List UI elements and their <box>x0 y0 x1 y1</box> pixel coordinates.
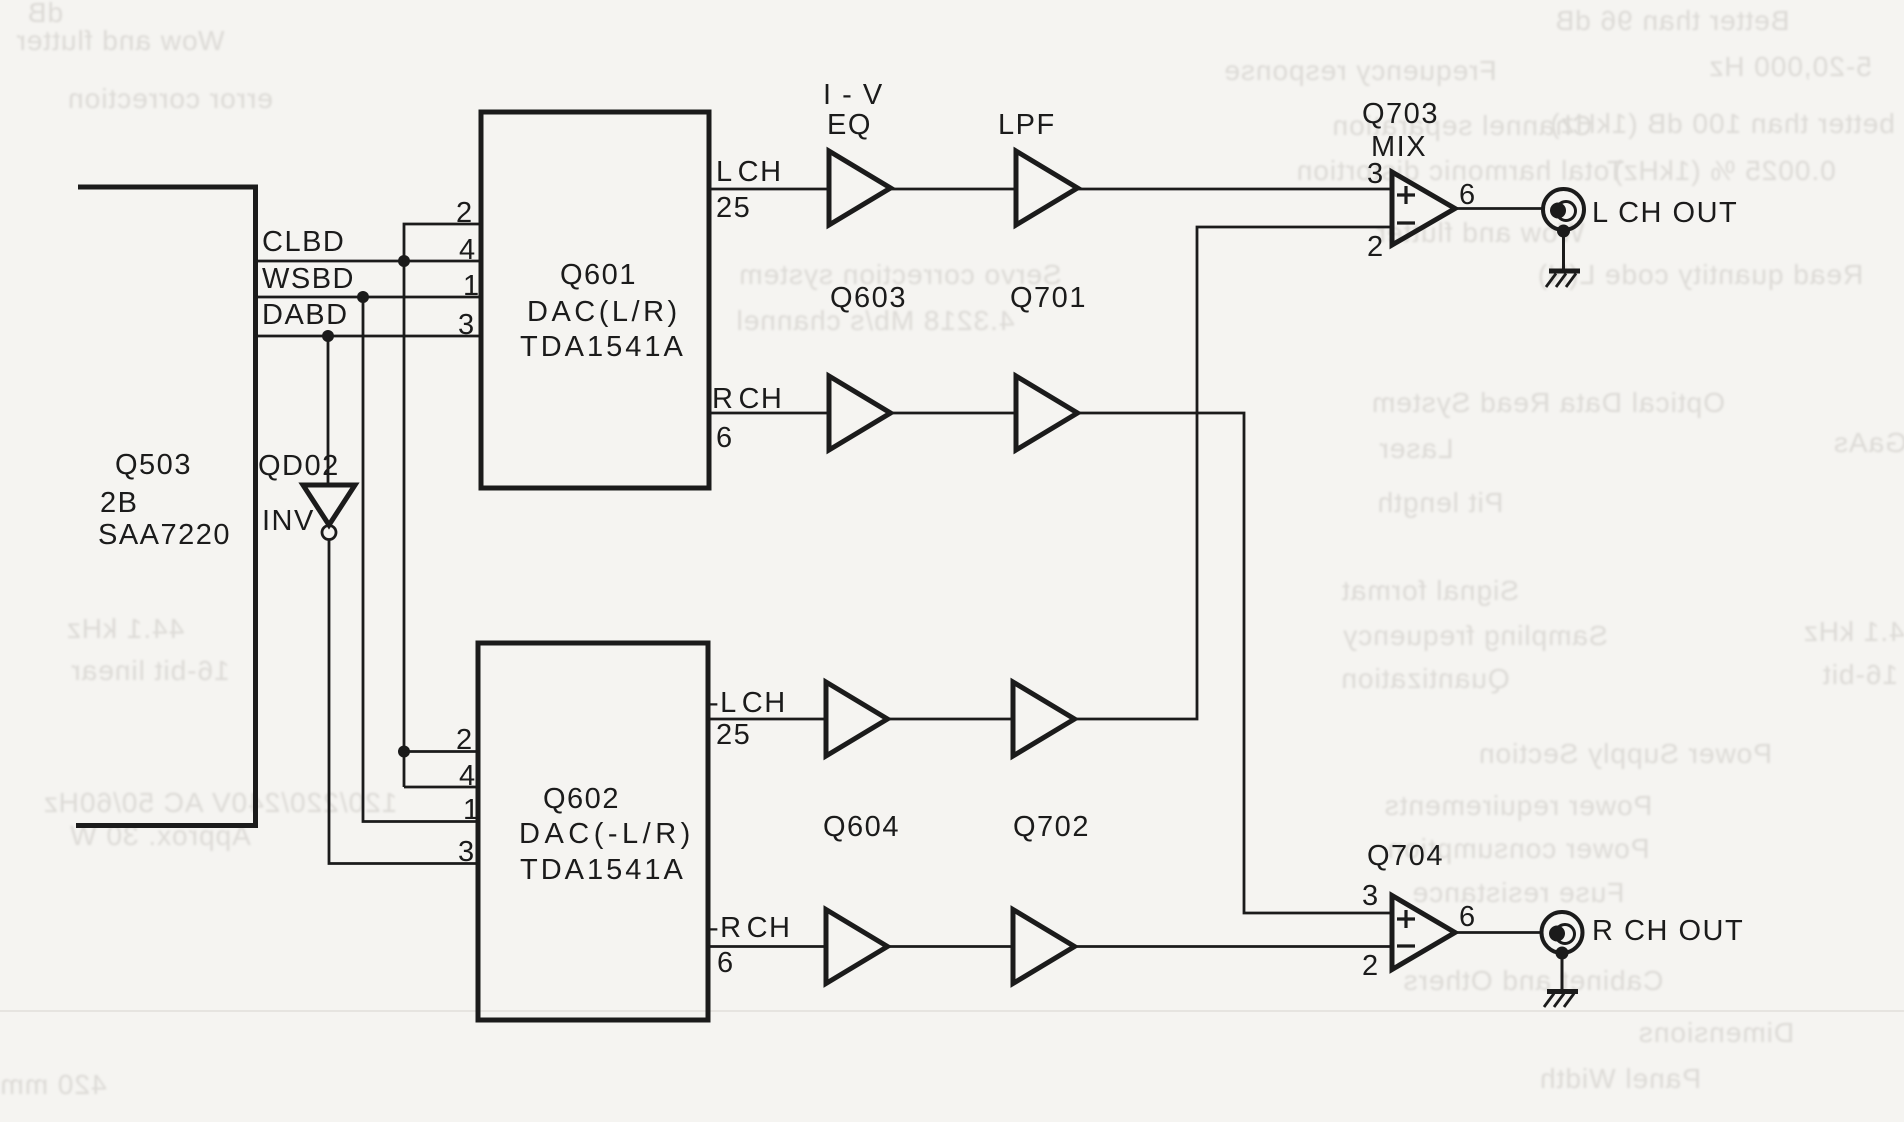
junction CLBD branch <box>398 255 410 267</box>
svg-text:4: 4 <box>459 234 477 266</box>
svg-text:25: 25 <box>716 719 751 751</box>
svg-text:DAC(L/R): DAC(L/R) <box>527 296 681 328</box>
svg-text:CLBD: CLBD <box>262 226 345 258</box>
svg-text:2B: 2B <box>100 487 138 519</box>
svg-text:Wow and flutter: Wow and flutter <box>15 25 224 56</box>
svg-text:Panel Width: Panel Width <box>1539 1063 1701 1094</box>
svg-text:3: 3 <box>1362 880 1380 912</box>
svg-text:120/220/240V AC 50/60Hz: 120/220/240V AC 50/60Hz <box>43 787 398 818</box>
svg-text:Q701: Q701 <box>1010 282 1087 314</box>
svg-text:Pit length: Pit length <box>1377 487 1504 518</box>
svg-text:6: 6 <box>717 947 735 979</box>
svg-text:Quantization: Quantization <box>1340 663 1509 694</box>
buffer amp Q702 <box>1013 682 1075 756</box>
svg-text:2: 2 <box>456 724 474 756</box>
svg-text:2: 2 <box>456 197 474 229</box>
svg-text:DAC(-L/R): DAC(-L/R) <box>519 818 695 850</box>
svg-text:Q503: Q503 <box>115 449 192 481</box>
svg-text:2: 2 <box>1367 231 1385 263</box>
junction WSBD branch <box>357 291 369 303</box>
DAC Q602 TDA1541A block <box>478 643 708 1020</box>
wire LCH from Q601 pin 25 to buffer Q603 <box>709 188 829 191</box>
svg-text:Dimensions: Dimensions <box>1638 1017 1794 1048</box>
buffer amp minus right I-V <box>826 910 888 984</box>
svg-text:3: 3 <box>458 836 476 868</box>
svg-text:44.1 kHz: 44.1 kHz <box>66 613 185 644</box>
svg-text:Frequency response: Frequency response <box>1223 55 1496 86</box>
DAC Q601 TDA1541A block <box>481 112 709 488</box>
svg-text:Q703: Q703 <box>1362 98 1439 130</box>
connector LCH OUT jack <box>1543 189 1584 230</box>
svg-text:Q604: Q604 <box>823 811 900 843</box>
wire -RCH to Q704 pin 2 <box>1074 945 1392 948</box>
svg-text:Sampling frequency: Sampling frequency <box>1342 620 1607 651</box>
wire between minus right buffers <box>887 945 1013 948</box>
svg-text:16-bit: 16-bit <box>1822 659 1898 690</box>
label Q703 MIX <box>1362 98 1439 163</box>
svg-text:Read quantity code L(N): Read quantity code L(N) <box>1537 259 1864 290</box>
svg-text:4: 4 <box>459 760 477 792</box>
wire CLBD from Q503 to Q601 pin 4 <box>255 260 481 263</box>
label I-V EQ <box>823 79 884 141</box>
svg-text:-RCH: -RCH <box>709 912 792 944</box>
svg-text:Power Supply Section: Power Supply Section <box>1478 738 1772 769</box>
wire -LCH to Q703 pin 2 <box>1074 227 1392 719</box>
svg-text:Better than 96 dB: Better than 96 dB <box>1555 5 1790 36</box>
svg-text:R CH OUT: R CH OUT <box>1592 915 1744 947</box>
svg-text:Signal format: Signal format <box>1341 575 1519 606</box>
svg-text:6: 6 <box>1459 179 1477 211</box>
svg-text:EQ: EQ <box>827 109 872 141</box>
junction LCH jack shield <box>1557 225 1570 238</box>
wire DABD to inverter input <box>327 336 330 485</box>
wire Q703 output to LCH OUT jack <box>1455 207 1543 210</box>
wire LPF output to Q703 pin 3 <box>1077 188 1392 191</box>
wire CLBD branch down to Q602 <box>403 261 406 787</box>
svg-text:LPF: LPF <box>998 109 1056 141</box>
svg-text:-LCH: -LCH <box>709 687 787 719</box>
wire Q603 to Q701 <box>890 188 1016 191</box>
wire RCH jack shield to ground <box>1561 953 1564 989</box>
wire RCH to Q704 pin 3 <box>1077 413 1392 913</box>
IC Q503 SAA7220 block <box>76 187 256 826</box>
svg-text:DABD: DABD <box>262 299 349 331</box>
inverter QD02 INV <box>258 450 355 540</box>
svg-text:TDA1541A: TDA1541A <box>520 854 686 886</box>
svg-text:LCH: LCH <box>716 156 783 188</box>
buffer amp Q701 LPF left channel <box>1016 151 1078 225</box>
svg-text:Fuse resistance: Fuse resistance <box>1412 877 1625 908</box>
junction CLBD at Q602 pin 2 <box>398 746 410 758</box>
op-amp Q704 MIX <box>1392 896 1455 970</box>
svg-text:6: 6 <box>716 422 734 454</box>
wire Q604 to Q702 <box>887 718 1013 721</box>
connector RCH OUT jack <box>1542 912 1583 953</box>
wire DABD from Q503 to Q601 pin 3 <box>255 335 481 338</box>
svg-text:420 mm: 420 mm <box>0 1069 107 1100</box>
buffer amp right channel LPF <box>1016 376 1078 450</box>
wire -LCH from Q602 pin 25 to buffer Q604 <box>708 718 826 721</box>
svg-text:Q601: Q601 <box>560 259 637 291</box>
buffer amp minus right LPF <box>1013 910 1075 984</box>
svg-text:RCH: RCH <box>712 383 783 415</box>
svg-text:Power requirements: Power requirements <box>1384 790 1653 821</box>
wire LCH jack shield to ground <box>1562 231 1565 269</box>
svg-text:0.0025 % (1kHz): 0.0025 % (1kHz) <box>1612 155 1836 186</box>
svg-text:5-20,000 Hz: 5-20,000 Hz <box>1708 51 1872 82</box>
ground L <box>1546 271 1580 287</box>
ground R <box>1544 992 1578 1008</box>
wire CLBD branch to Q601 pin 2 <box>404 224 481 261</box>
svg-text:L CH OUT: L CH OUT <box>1592 197 1738 229</box>
wire between right channel buffers <box>890 412 1016 415</box>
svg-text:1: 1 <box>463 270 481 302</box>
svg-text:3: 3 <box>1367 158 1385 190</box>
wire WSBD from Q503 to Q601 pin 1 <box>255 296 481 299</box>
svg-text:1: 1 <box>463 794 481 826</box>
svg-text:6: 6 <box>1459 901 1477 933</box>
wire inverter output to Q602 pin 3 <box>329 540 478 864</box>
svg-text:better than 100 dB (1kHz): better than 100 dB (1kHz) <box>1549 108 1895 139</box>
op-amp Q703 MIX <box>1392 172 1455 245</box>
svg-text:SAA7220: SAA7220 <box>98 519 231 551</box>
svg-text:QD02: QD02 <box>258 450 340 482</box>
wire Q704 output to RCH OUT jack <box>1455 931 1542 934</box>
svg-text:WSBD: WSBD <box>262 263 355 295</box>
buffer amp Q603 I-V EQ left channel <box>829 151 891 225</box>
svg-text:Q602: Q602 <box>543 783 620 815</box>
svg-text:16-bit linear: 16-bit linear <box>70 655 229 686</box>
svg-text:Q704: Q704 <box>1367 840 1444 872</box>
svg-text:Optical Data Read System: Optical Data Read System <box>1371 387 1725 418</box>
wire WSBD down to Q602 pin 1 <box>363 297 478 822</box>
wire to Q602 pin 4 <box>404 786 478 789</box>
wire RCH from Q601 pin 6 to buffer <box>709 412 829 415</box>
svg-text:25: 25 <box>716 192 751 224</box>
svg-text:error correction: error correction <box>67 83 273 114</box>
svg-text:2: 2 <box>1362 950 1380 982</box>
wire -RCH from Q602 pin 6 to buffer <box>708 945 826 948</box>
svg-text:3: 3 <box>458 309 476 341</box>
svg-text:Q702: Q702 <box>1013 811 1090 843</box>
svg-text:GaAs: GaAs <box>1833 427 1904 458</box>
svg-text:INV: INV <box>262 505 315 537</box>
svg-text:TDA1541A: TDA1541A <box>520 331 686 363</box>
junction RCH jack shield <box>1556 947 1569 960</box>
buffer amp Q604 <box>826 682 888 756</box>
svg-text:44.1 kHz: 44.1 kHz <box>1803 616 1904 647</box>
svg-text:I - V: I - V <box>823 79 884 111</box>
buffer amp right channel I-V <box>829 376 891 450</box>
wire to Q602 pin 2 <box>404 750 478 753</box>
svg-text:Q603: Q603 <box>830 282 907 314</box>
junction DABD branch <box>322 330 334 342</box>
svg-text:Cabinet and Others: Cabinet and Others <box>1403 965 1664 996</box>
svg-text:dB: dB <box>27 0 63 28</box>
svg-text:Laser: Laser <box>1378 433 1453 464</box>
